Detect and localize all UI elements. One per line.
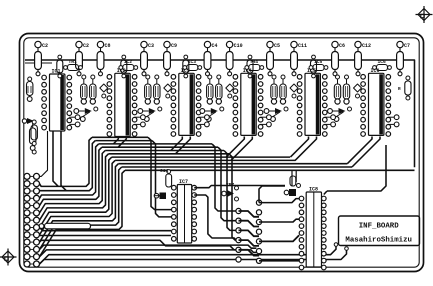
svg-text:C11: C11 <box>298 43 307 49</box>
svg-text:1C5: 1C5 <box>314 59 323 65</box>
svg-text:C14: C14 <box>160 168 169 174</box>
svg-text:TR1: TR1 <box>69 59 78 65</box>
svg-text:TR7: TR7 <box>226 182 235 188</box>
svg-text:C6: C6 <box>339 43 345 49</box>
svg-text:IC1: IC1 <box>52 69 61 75</box>
svg-text:1C6: 1C6 <box>378 59 387 65</box>
svg-text:C2: C2 <box>83 43 89 49</box>
svg-text:C7: C7 <box>404 43 410 49</box>
svg-text:INF_BOARD: INF_BOARD <box>359 223 399 231</box>
svg-text:C9: C9 <box>171 43 177 49</box>
svg-text:R: R <box>398 87 401 92</box>
svg-text:C12: C12 <box>362 43 371 49</box>
svg-text:C8: C8 <box>105 43 111 49</box>
svg-text:TR4: TR4 <box>250 59 259 65</box>
svg-text:C2: C2 <box>42 43 48 49</box>
svg-text:1C2: 1C2 <box>124 59 133 65</box>
svg-text:C4: C4 <box>212 43 218 49</box>
svg-text:C3: C3 <box>148 43 154 49</box>
svg-text:MasahiroShimizu: MasahiroShimizu <box>345 237 412 245</box>
svg-text:C10: C10 <box>234 43 243 49</box>
svg-text:IC7: IC7 <box>179 179 188 185</box>
svg-text:C5: C5 <box>274 43 280 49</box>
svg-text:1C3: 1C3 <box>188 59 197 65</box>
